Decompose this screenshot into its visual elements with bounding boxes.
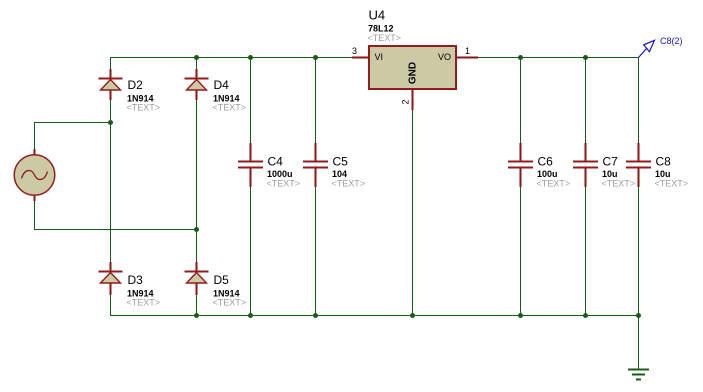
svg-text:<TEXT>: <TEXT> bbox=[127, 103, 161, 113]
wire C6 column bbox=[520, 57, 522, 316]
node C8(2) probe arrow bbox=[639, 40, 655, 57]
svg-text:VO: VO bbox=[438, 52, 451, 62]
ground bbox=[628, 370, 649, 380]
wire C5 column bbox=[315, 57, 317, 316]
svg-text:C4: C4 bbox=[268, 155, 284, 169]
AC source V1 bbox=[14, 149, 55, 201]
svg-text:D4: D4 bbox=[214, 78, 230, 92]
svg-text:<TEXT>: <TEXT> bbox=[368, 33, 402, 43]
junction dot top bus at C7 bbox=[583, 55, 588, 60]
junction dot bottom bus at C6 bbox=[518, 313, 523, 318]
svg-text:<TEXT>: <TEXT> bbox=[655, 179, 689, 189]
svg-text:C5: C5 bbox=[333, 155, 349, 169]
capacitor C7 bbox=[573, 143, 598, 187]
svg-text:1000u: 1000u bbox=[267, 169, 293, 179]
junction dot bottom bus at C8/ground bbox=[636, 313, 641, 318]
capacitor C6 bbox=[508, 143, 533, 187]
regulator U4 78L12 bbox=[352, 46, 478, 110]
svg-text:C7: C7 bbox=[603, 155, 619, 169]
svg-text:VI: VI bbox=[375, 52, 384, 62]
svg-text:D5: D5 bbox=[214, 273, 230, 287]
svg-text:3: 3 bbox=[352, 46, 357, 56]
svg-text:<TEXT>: <TEXT> bbox=[537, 179, 571, 189]
svg-text:D3: D3 bbox=[128, 273, 144, 287]
wire C4 column bbox=[250, 57, 252, 316]
junction dot top bus at D4 bbox=[194, 55, 199, 60]
svg-text:<TEXT>: <TEXT> bbox=[127, 298, 161, 308]
diode D5 bbox=[185, 262, 209, 295]
wire AC source bottom bbox=[35, 201, 197, 230]
capacitor C4 bbox=[238, 143, 263, 187]
svg-text:100u: 100u bbox=[537, 169, 558, 179]
junction dot bottom bus at C5 bbox=[313, 313, 318, 318]
junction dot bottom bus at D5 bbox=[194, 313, 199, 318]
svg-text:10u: 10u bbox=[602, 169, 618, 179]
wire C8 column bbox=[638, 57, 640, 316]
capacitor C5 bbox=[303, 143, 328, 187]
junction dot bottom bus at regulator GND bbox=[410, 313, 415, 318]
svg-text:<TEXT>: <TEXT> bbox=[602, 179, 636, 189]
junction dot top bus at C4 bbox=[248, 55, 253, 60]
svg-text:1: 1 bbox=[465, 46, 470, 56]
diode D2 bbox=[99, 69, 123, 100]
capacitor C8 bbox=[626, 143, 651, 187]
svg-text:<TEXT>: <TEXT> bbox=[213, 103, 247, 113]
svg-text:<TEXT>: <TEXT> bbox=[267, 179, 301, 189]
wire D2/D3 column bbox=[110, 57, 112, 316]
wire D4/D5 column bbox=[196, 57, 198, 316]
junction dot bottom bus at C7 bbox=[583, 313, 588, 318]
svg-text:<TEXT>: <TEXT> bbox=[213, 298, 247, 308]
svg-text:2: 2 bbox=[401, 99, 411, 104]
svg-text:104: 104 bbox=[332, 169, 347, 179]
diode D3 bbox=[99, 262, 123, 295]
wire AC source top bbox=[35, 123, 111, 150]
svg-text:C8: C8 bbox=[656, 155, 672, 169]
wire C7 column bbox=[585, 57, 587, 316]
junction dot top bus at C5 bbox=[313, 55, 318, 60]
svg-text:U4: U4 bbox=[369, 8, 386, 23]
svg-text:<TEXT>: <TEXT> bbox=[332, 179, 366, 189]
junction dot top bus at C6 bbox=[518, 55, 523, 60]
junction dot AC bottom at D4 column bbox=[194, 227, 199, 232]
junction dot AC top at D2 column bbox=[108, 120, 113, 125]
junction dot bottom bus at C4 bbox=[248, 313, 253, 318]
wire regulator GND to bottom bus bbox=[412, 110, 414, 316]
wire top bus left bbox=[110, 57, 352, 59]
svg-text:C8(2): C8(2) bbox=[660, 36, 683, 46]
svg-text:C6: C6 bbox=[538, 155, 554, 169]
svg-text:10u: 10u bbox=[655, 169, 671, 179]
wire bottom bus bbox=[110, 315, 639, 317]
wire ground drop bbox=[638, 315, 640, 369]
wire top bus right bbox=[478, 57, 639, 59]
svg-text:GND: GND bbox=[408, 62, 419, 84]
svg-text:78L12: 78L12 bbox=[368, 24, 394, 34]
svg-text:D2: D2 bbox=[128, 78, 144, 92]
diode D4 bbox=[185, 69, 209, 100]
